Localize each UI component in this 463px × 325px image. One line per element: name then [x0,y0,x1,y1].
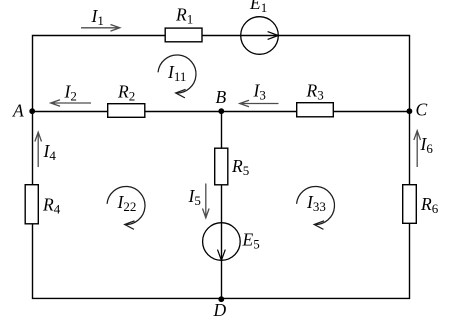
svg-text:B: B [216,87,227,107]
svg-text:A: A [12,101,24,121]
svg-text:E1: E1 [249,0,267,15]
svg-text:C: C [416,100,428,120]
svg-text:D: D [213,300,227,320]
